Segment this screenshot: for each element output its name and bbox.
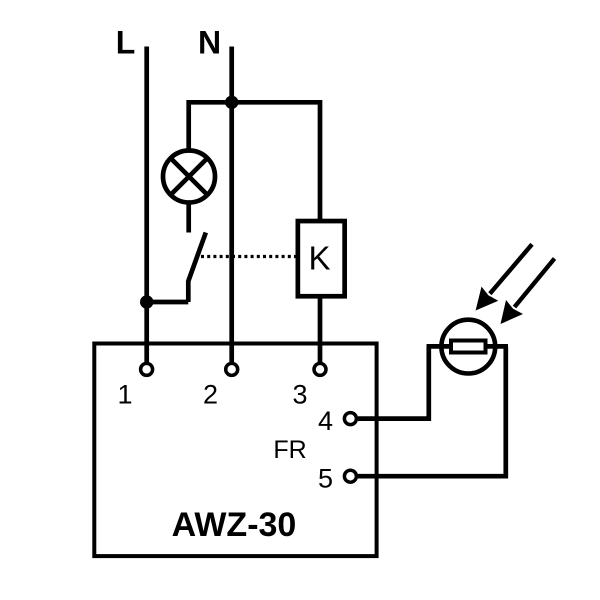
photoresistor FR circle xyxy=(441,320,495,374)
svg-text:2: 2 xyxy=(203,380,218,410)
dotted control link switch to relay xyxy=(201,255,296,258)
terminal 2 xyxy=(226,363,238,375)
wire lamp branch from bus xyxy=(189,102,232,232)
svg-text:4: 4 xyxy=(318,406,333,436)
light arrow 1 shaft xyxy=(490,244,532,293)
wire N line down to terminal 2 xyxy=(229,47,234,363)
wire terminal 5 to photoresistor xyxy=(358,346,506,476)
svg-text:K: K xyxy=(308,240,330,277)
svg-text:N: N xyxy=(198,25,221,61)
wire through photoresistor xyxy=(427,344,509,349)
light arrow 2 shaft xyxy=(515,259,555,308)
svg-text:5: 5 xyxy=(318,464,333,494)
wire relay to terminal 3 xyxy=(318,296,323,362)
terminal 1 xyxy=(141,363,153,375)
wire switch to L junction xyxy=(147,300,189,305)
lamp E1 xyxy=(163,151,215,203)
svg-text:L: L xyxy=(116,25,136,61)
wire L line down to terminal 1 xyxy=(144,47,149,363)
svg-text:AWZ-30: AWZ-30 xyxy=(172,506,297,544)
wire terminal 4 to photoresistor xyxy=(358,346,429,418)
svg-text:3: 3 xyxy=(292,380,307,410)
terminal 4 xyxy=(344,413,356,425)
light arrow 2 head xyxy=(501,300,524,324)
relay coil K box xyxy=(298,221,345,296)
photoresistor FR body xyxy=(451,341,486,353)
wire relay branch from bus xyxy=(232,102,320,221)
terminal 5 xyxy=(344,470,356,482)
switch S1 blade xyxy=(188,233,206,303)
junction N-bus xyxy=(225,96,238,109)
svg-text:1: 1 xyxy=(117,380,132,410)
terminal 3 xyxy=(314,363,326,375)
junction switch-L xyxy=(140,295,153,308)
device box AWZ-30 xyxy=(94,344,376,557)
svg-text:FR: FR xyxy=(273,436,306,464)
light arrow 1 head xyxy=(476,287,499,311)
